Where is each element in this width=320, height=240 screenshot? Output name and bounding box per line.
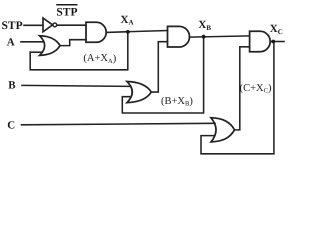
node XC junction dot <box>271 40 275 44</box>
wire XC feedback <box>201 42 274 154</box>
OR gate 2 <box>127 82 151 103</box>
node XB junction dot <box>202 35 206 39</box>
wire XA feedback <box>30 32 128 70</box>
wire XB net <box>190 36 250 37</box>
wire XB feedback <box>122 37 203 113</box>
wire B input <box>22 85 131 86</box>
wire STP input <box>24 24 43 26</box>
inverter U1 bubble <box>53 23 57 27</box>
svg-text:(B+XB): (B+XB) <box>161 96 193 108</box>
wire OR3 output to AND3 <box>235 47 250 130</box>
OR gate 1 <box>40 36 60 56</box>
svg-text:XA: XA <box>121 14 134 27</box>
wire C input <box>22 123 216 125</box>
svg-text:XB: XB <box>198 19 211 32</box>
wire XC output stub <box>270 41 284 43</box>
svg-text:(A+XA): (A+XA) <box>83 53 116 65</box>
svg-text:C: C <box>7 120 15 132</box>
node XA junction dot <box>126 30 130 34</box>
wire inverter output to AND1 <box>57 24 86 26</box>
wire OR2 output to AND2 <box>151 42 167 92</box>
AND gate 2 <box>168 26 190 47</box>
svg-text:STP: STP <box>2 20 23 32</box>
svg-text:A: A <box>7 36 15 48</box>
OR gate 3 <box>211 118 235 142</box>
wire XA net <box>106 31 167 33</box>
inverter U1 triangle <box>43 18 53 32</box>
wire A input <box>21 41 43 43</box>
AND gate 3 <box>250 31 271 51</box>
svg-text:STP: STP <box>56 6 77 18</box>
svg-text:(C+XC): (C+XC) <box>240 83 272 95</box>
svg-text:B: B <box>8 79 16 91</box>
wire OR1 lower input <box>30 51 42 53</box>
AND gate 1 <box>86 22 106 42</box>
svg-text:XC: XC <box>270 23 283 36</box>
wire OR1 output step to AND1 <box>60 40 86 46</box>
label STP-bar overline <box>56 4 77 6</box>
